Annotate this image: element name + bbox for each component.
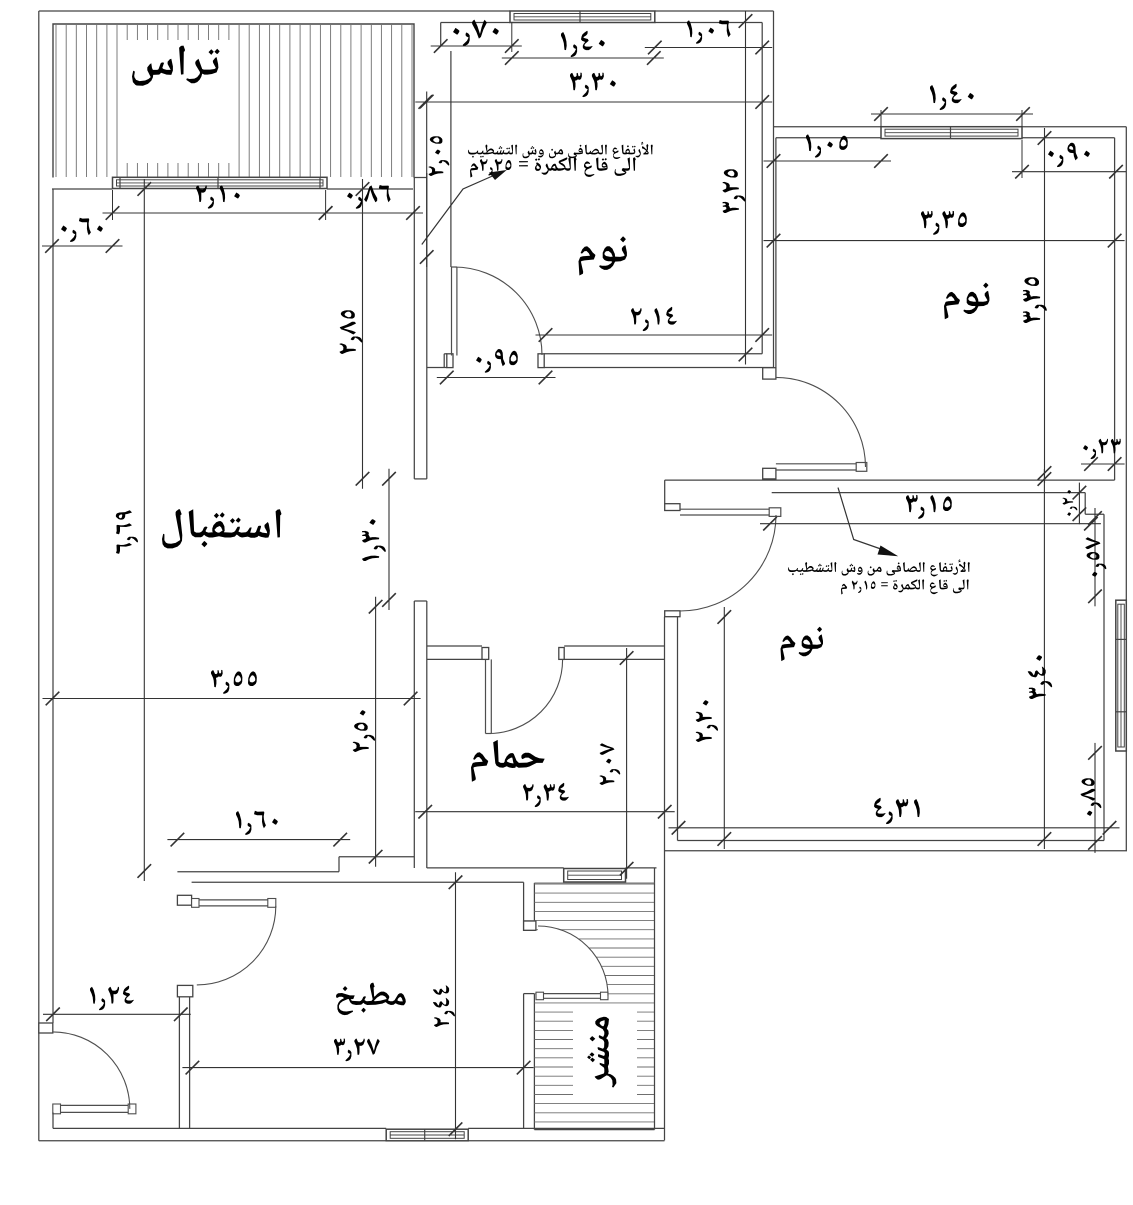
door D3 swing arc <box>680 515 776 611</box>
room label room B <box>944 283 989 320</box>
annotation upper text line1 <box>468 142 653 159</box>
door D3 leaf <box>680 508 769 510</box>
door D1 room A leaf <box>451 267 453 356</box>
door D2 leaf <box>776 463 867 465</box>
dimension 1.40 <box>502 57 664 59</box>
corridor south wall bottom face <box>772 492 1085 494</box>
stair block inner lines <box>654 868 656 1130</box>
door D4 jambs <box>482 648 489 660</box>
door D6 swing arc <box>538 926 608 996</box>
left wall inner face <box>52 189 54 1023</box>
door D5 swing arc <box>197 906 276 985</box>
dimension 2.07 <box>626 648 628 879</box>
window W5 bathroom south <box>564 869 626 883</box>
dimension 0.23 <box>1081 463 1125 465</box>
terrace outline <box>53 24 414 178</box>
window W6 bottom wall <box>386 1129 468 1141</box>
room label reception <box>162 509 281 548</box>
dimension 2.14 <box>536 334 773 336</box>
room label room C <box>781 627 824 661</box>
dimension 2.34 <box>415 811 675 813</box>
door D4 leaf <box>485 659 487 733</box>
outer wall: bottom edge <box>39 1140 665 1142</box>
door D5 leaf <box>192 899 276 901</box>
terrace hatched slab <box>56 25 412 177</box>
dimension 1.60 <box>167 839 350 841</box>
dimension 2.44 <box>455 872 457 1139</box>
outer wall: top-right bedroom top face <box>774 126 882 128</box>
door D6 leaf <box>538 993 608 995</box>
dimension 2.05 <box>426 92 428 268</box>
outer wall: right edge <box>1125 127 1127 851</box>
dimension 3.25 <box>745 11 747 365</box>
corridor south wall jog at right <box>1084 493 1086 515</box>
room B top inner wall <box>776 137 881 139</box>
room A top inner wall <box>441 22 510 24</box>
wall pair right of terrace (stair void) upper <box>413 178 415 479</box>
dimension 3.35v <box>1044 128 1046 483</box>
wall pair right of reception lower (bathroom left wall) <box>413 601 415 868</box>
dimension 2.50 <box>375 597 377 867</box>
dimension 1.06 <box>645 47 772 49</box>
dimension 6.69 <box>143 179 145 881</box>
extension lines <box>112 190 114 220</box>
room A right wall <box>761 23 763 354</box>
door D7 jamb <box>39 1023 53 1033</box>
room C left wall inner <box>677 617 679 841</box>
dimension 0.57 <box>1094 508 1096 606</box>
window W3 room B top <box>881 127 1022 139</box>
kitchen left wall (vestibule wall) <box>177 985 192 996</box>
dimension 0.85 <box>1094 743 1096 853</box>
room A left wall <box>440 23 442 47</box>
room label kitchen <box>336 983 406 1015</box>
door D3 jambs <box>665 504 680 511</box>
room label room A <box>579 237 627 276</box>
window W1 under terrace <box>113 177 328 188</box>
dimension 0.86 <box>316 212 423 214</box>
stair hatch (manshar) <box>534 884 654 1122</box>
dimension 2.20 <box>723 607 725 849</box>
dimension 1.30 <box>388 469 390 610</box>
outer wall: stair block right edge <box>664 617 666 1141</box>
dimension 3.15 <box>760 523 1101 525</box>
room B right inner wall <box>1114 138 1116 480</box>
dimension 3.30 <box>415 101 772 103</box>
door D1 room A swing arc <box>454 267 542 355</box>
annotation lower text line2 <box>841 579 969 594</box>
corridor south wall top face <box>665 479 1115 481</box>
dimension 3.27 <box>182 1067 533 1069</box>
room A bottom wall <box>427 367 447 369</box>
dimension 3.35 <box>764 240 1125 242</box>
kitchen right wall <box>523 882 525 921</box>
bottom wall inner <box>53 1127 386 1129</box>
bathroom top wall <box>427 645 482 647</box>
dimension 2.85 <box>362 179 364 489</box>
window W2 room A top <box>510 11 655 23</box>
dimension 0.60 <box>42 245 123 247</box>
kitchen top wall outer with jog <box>177 871 339 873</box>
window W4 room C right wall <box>1116 600 1127 751</box>
door D2 jambs <box>763 368 776 379</box>
room label bathroom <box>471 740 545 782</box>
kitchen top wall inner <box>192 881 524 883</box>
dimension 1.24 <box>43 1013 191 1015</box>
annotation lower: leader arrow <box>838 488 888 552</box>
outer wall: top edge <box>39 10 510 12</box>
door D2 swing arc <box>776 377 866 467</box>
door D6 jamb <box>524 921 536 930</box>
reception top wall <box>52 188 113 190</box>
dimension 2.10 <box>103 212 336 214</box>
room B left wall <box>775 138 777 368</box>
door D7 leaf <box>53 1104 136 1106</box>
door D5 kitchen jamb <box>177 895 191 905</box>
annotation lower text line1 <box>788 560 970 577</box>
corridor south wall left edge <box>664 480 666 504</box>
outer wall: middle-right bedroom bottom face <box>665 850 1128 852</box>
room label terrace <box>132 46 220 86</box>
stair block top wall <box>427 867 564 869</box>
dimension 0.90 <box>1012 171 1126 173</box>
dimension 3.40 <box>1043 469 1045 849</box>
dimension 3.55 <box>43 698 421 700</box>
dimension 0.70 <box>431 45 522 47</box>
dimension 0.95 <box>437 377 556 379</box>
dimension 1.40b <box>871 113 1033 115</box>
door D7 swing arc <box>53 1032 130 1109</box>
dimension 1.05 <box>764 160 892 162</box>
annotation upper text line2 <box>470 157 636 177</box>
door D4 swing arc <box>489 660 563 734</box>
dimension 0.20 <box>1078 483 1080 525</box>
annotation upper: leader arrow <box>422 174 497 245</box>
room C bottom inner wall <box>678 840 1105 842</box>
outer wall: left edge <box>38 11 40 1141</box>
dimension 4.31 <box>669 827 1120 829</box>
room label manshar (vertical) <box>587 1017 616 1088</box>
